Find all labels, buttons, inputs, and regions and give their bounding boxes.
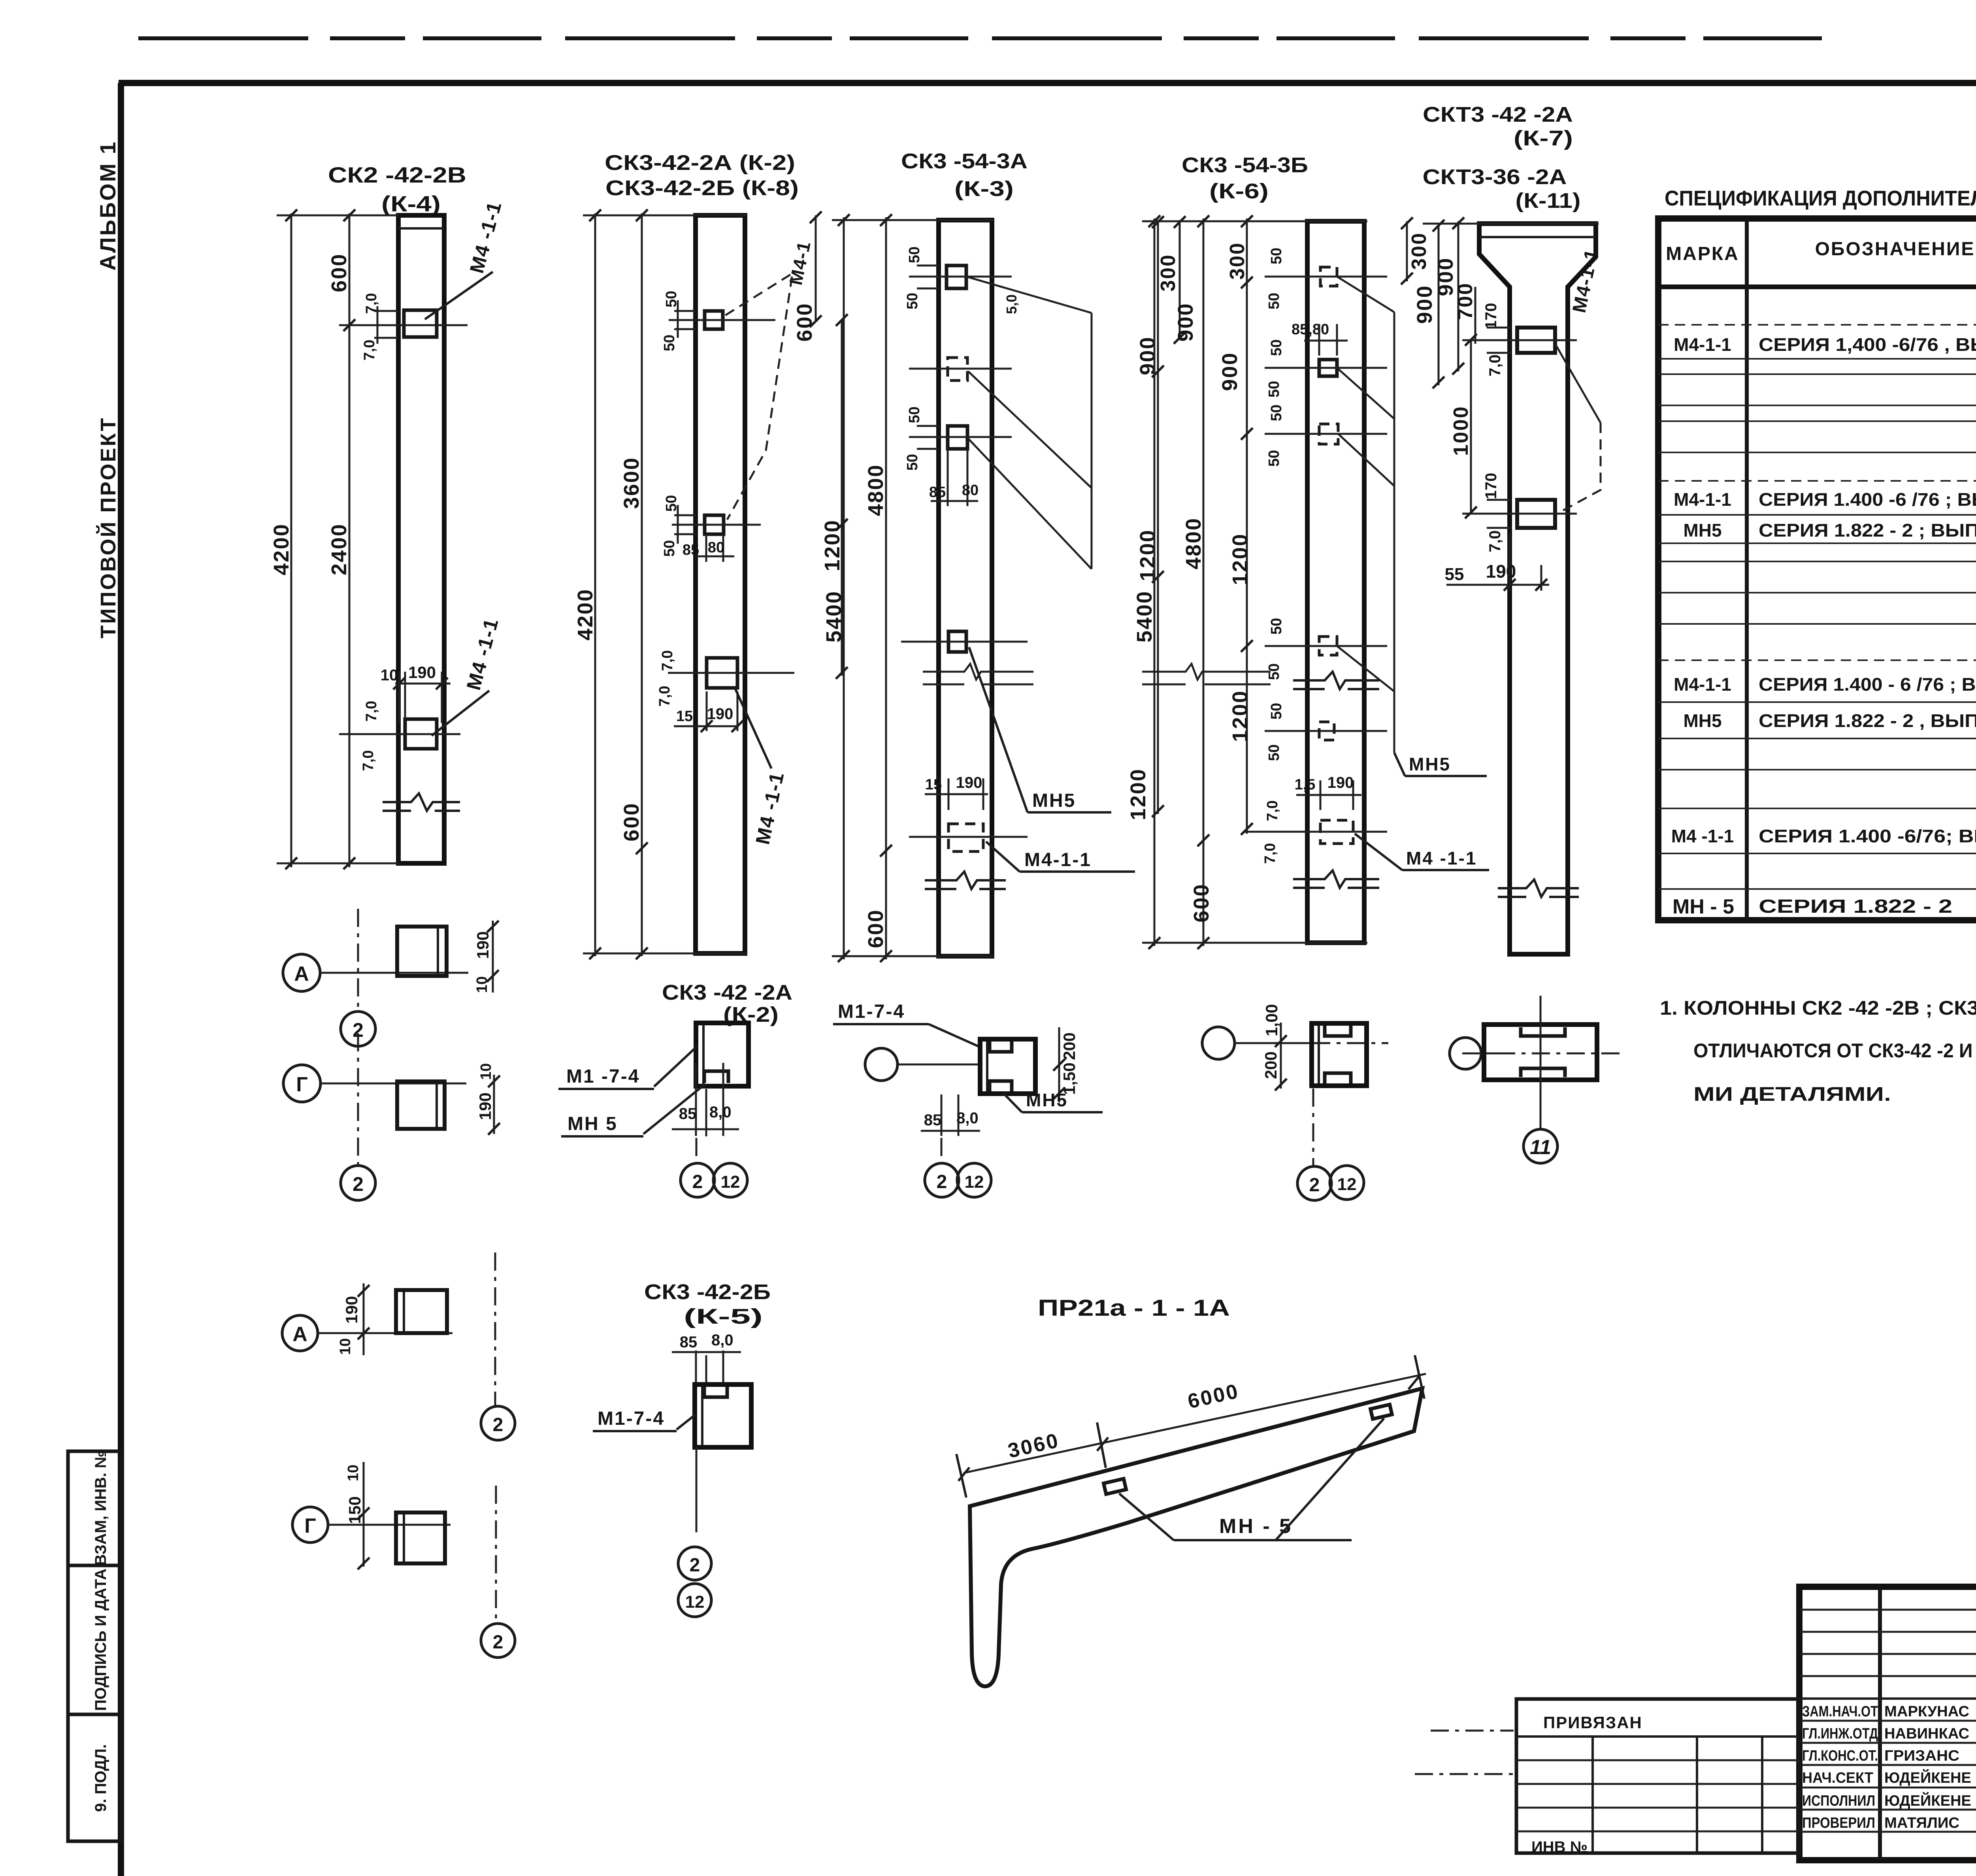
svg-text:600: 600 xyxy=(620,802,643,841)
row3 axis line Г xyxy=(328,1524,451,1526)
svg-text:50: 50 xyxy=(663,291,680,307)
small dims 70 70 at upper plate xyxy=(374,306,398,344)
svg-text:МАРКА: МАРКА xyxy=(1666,243,1739,264)
svg-text:М1-7-4: М1-7-4 xyxy=(838,1001,905,1022)
svg-text:ИНВ №: ИНВ № xyxy=(1531,1838,1588,1856)
sheet top dashed trim line xyxy=(138,38,1976,40)
plate 1 col3 xyxy=(947,266,966,288)
svg-text:ГЛ.ИНЖ.ОТД: ГЛ.ИНЖ.ОТД xyxy=(1802,1725,1878,1742)
svg-text:МИ ДЕТАЛЯМИ.: МИ ДЕТАЛЯМИ. xyxy=(1693,1083,1891,1105)
plate 6 col4 dashed М4-1-1 xyxy=(1320,820,1353,844)
section К-5 top plate xyxy=(704,1387,727,1397)
svg-text:85: 85 xyxy=(679,1105,697,1123)
plate 4 col4 dashed xyxy=(1319,637,1337,655)
left margin stamp box ПОДПИСЬ И ДАТА xyxy=(68,1565,121,1714)
svg-text:А: А xyxy=(294,962,309,985)
row2 third axis line xyxy=(1235,1042,1312,1044)
svg-text:ГЛ.КОНС.ОТ.: ГЛ.КОНС.ОТ. xyxy=(1802,1748,1878,1764)
dim line 3600 600 col2 xyxy=(641,213,643,956)
section К-11 axis bubble xyxy=(1450,1038,1481,1069)
section axis bubble А row2 xyxy=(283,954,320,991)
svg-text:80: 80 xyxy=(962,482,979,499)
table frame xyxy=(1658,218,1976,920)
plate 2 col4 xyxy=(1319,360,1337,376)
horizontal break dim lines col3 xyxy=(923,664,1271,684)
svg-text:МАТЯЛИС: МАТЯЛИС xyxy=(1884,1815,1959,1831)
svg-text:7,0: 7,0 xyxy=(361,340,378,361)
top extension line xyxy=(277,215,399,217)
svg-text:СК3 -54-3А: СК3 -54-3А xyxy=(901,149,1028,173)
dims 85 80 section К-2 xyxy=(672,1063,739,1136)
svg-text:10: 10 xyxy=(474,976,490,993)
svg-text:190: 190 xyxy=(476,1092,494,1120)
svg-text:7,0: 7,0 xyxy=(1486,354,1504,377)
svg-text:СКТ3 -42 -2А: СКТ3 -42 -2А xyxy=(1423,103,1573,126)
svg-text:СЕРИЯ 1.822 - 2 , ВЫП.6: СЕРИЯ 1.822 - 2 , ВЫП.6 xyxy=(1759,710,1976,731)
svg-text:12: 12 xyxy=(965,1172,984,1192)
plate axis line xyxy=(339,324,468,326)
row3 section А square xyxy=(396,1290,447,1333)
svg-text:900: 900 xyxy=(1218,352,1242,391)
column СК3-54-3Б body xyxy=(1307,221,1364,943)
svg-text:190: 190 xyxy=(408,663,436,682)
svg-text:МН5: МН5 xyxy=(1683,710,1721,731)
row2 third plates xyxy=(1325,1026,1351,1083)
row2 middle dims 200 150 xyxy=(1058,1027,1060,1102)
plate 2 col3 dashed xyxy=(948,358,967,380)
svg-text:МН 5: МН 5 xyxy=(568,1113,618,1134)
svg-text:СЕРИЯ 1.400 -6 /76 ; ВЫП. 1: СЕРИЯ 1.400 -6 /76 ; ВЫП. 1 xyxy=(1759,489,1976,510)
plate 2 col5 xyxy=(1517,500,1555,528)
svg-text:ПР21а - 1 - 1А: ПР21а - 1 - 1А xyxy=(1038,1295,1230,1321)
svg-text:МН - 5: МН - 5 xyxy=(1672,895,1734,918)
svg-text:ПОДПИСЬ И ДАТА: ПОДПИСЬ И ДАТА xyxy=(92,1569,109,1711)
svg-text:50: 50 xyxy=(661,540,678,557)
axis line Г xyxy=(321,1083,466,1085)
svg-text:900: 900 xyxy=(1136,336,1160,375)
svg-text:200: 200 xyxy=(1261,1051,1280,1079)
dim line 4800 600 col3 xyxy=(885,217,887,959)
plate 1 col2 xyxy=(705,311,723,329)
svg-text:(К-7): (К-7) xyxy=(1514,126,1573,150)
svg-text:М4 -1-1: М4 -1-1 xyxy=(751,770,788,846)
svg-text:80: 80 xyxy=(708,539,724,556)
frame top border xyxy=(119,80,1976,86)
svg-text:2: 2 xyxy=(1309,1175,1320,1196)
row2 third dims 100 200 xyxy=(1280,1023,1282,1089)
svg-text:ЗАМ.НАЧ.ОТ: ЗАМ.НАЧ.ОТ xyxy=(1802,1703,1878,1720)
section К-5 axis line below xyxy=(696,1447,698,1532)
svg-text:4200: 4200 xyxy=(270,523,293,575)
title block left rows xyxy=(1799,1609,1976,1611)
svg-text:2: 2 xyxy=(353,1173,364,1195)
svg-text:МН5: МН5 xyxy=(1026,1090,1068,1110)
embedded plate М4-1-1 upper xyxy=(404,310,437,337)
bottom extension col3 xyxy=(832,955,994,957)
svg-text:(К-11): (К-11) xyxy=(1516,189,1581,213)
left dim 900 col5 xyxy=(1438,224,1440,385)
svg-text:10: 10 xyxy=(478,1063,494,1080)
bottom extension col2 xyxy=(583,953,747,955)
svg-text:7,0: 7,0 xyxy=(656,686,673,707)
svg-text:ЮДЕЙКЕНЕ: ЮДЕЙКЕНЕ xyxy=(1884,1791,1971,1809)
svg-text:ТИПОВОЙ ПРОЕКТ: ТИПОВОЙ ПРОЕКТ xyxy=(96,416,120,639)
svg-text:М4 -1-1: М4 -1-1 xyxy=(466,199,506,275)
lower plate axis line xyxy=(339,733,460,735)
svg-text:Г: Г xyxy=(296,1073,307,1096)
right dim 900 col3 xyxy=(1157,220,1159,373)
svg-text:М4-1: М4-1 xyxy=(785,239,815,287)
svg-text:МН5: МН5 xyxy=(1032,790,1076,811)
svg-text:50: 50 xyxy=(906,407,923,423)
row2 middle axis line xyxy=(897,1064,980,1066)
dim line 5400 col3 xyxy=(843,217,845,959)
svg-text:ОТЛИЧАЮТСЯ ОТ СК3-42 -2 И: ОТЛИЧАЮТСЯ ОТ СК3-42 -2 И СК3-54- 2 ДОПО… xyxy=(1693,1040,1976,1062)
frame left border xyxy=(118,83,124,1876)
row2 middle section square xyxy=(980,1039,1035,1094)
svg-text:М4 -1-1: М4 -1-1 xyxy=(1671,826,1734,846)
row3 Г bubble 2 xyxy=(481,1624,515,1658)
svg-text:50: 50 xyxy=(1266,381,1282,397)
svg-text:1200: 1200 xyxy=(1136,529,1160,581)
bubbles 2 12 section К-2 xyxy=(681,1163,715,1197)
svg-text:СК3 -42 -2А: СК3 -42 -2А xyxy=(662,981,792,1004)
svg-text:СКТ3-36 -2А: СКТ3-36 -2А xyxy=(1423,165,1567,189)
svg-text:190: 190 xyxy=(707,705,733,723)
svg-text:М1 -7-4: М1 -7-4 xyxy=(566,1066,640,1087)
row3 А dims 190 10 xyxy=(363,1283,365,1355)
svg-text:600: 600 xyxy=(793,302,816,341)
svg-text:2: 2 xyxy=(937,1172,947,1192)
svg-text:9. ПОДЛ.: 9. ПОДЛ. xyxy=(92,1744,109,1812)
svg-text:55: 55 xyxy=(1445,565,1464,584)
axis bubble 11 xyxy=(1523,1129,1557,1163)
row2 third axis dash xyxy=(1312,1089,1314,1166)
bubbles 2 12 row2 third xyxy=(1297,1166,1331,1200)
column СК3-42-2А body xyxy=(696,215,745,953)
svg-text:СЕРИЯ 1.400 -6/76; ВЫП.1: СЕРИЯ 1.400 -6/76; ВЫП.1 xyxy=(1759,826,1976,846)
right dim 1200 col3 xyxy=(1157,373,1159,814)
svg-text:А: А xyxy=(292,1323,307,1346)
bubbles 2 12 row2 middle xyxy=(925,1163,959,1197)
svg-text:190: 190 xyxy=(956,774,982,791)
svg-text:М1-7-4: М1-7-4 xyxy=(598,1408,665,1429)
grid dash line 2 xyxy=(357,909,359,1011)
svg-text:50: 50 xyxy=(904,293,921,309)
row2 middle plates xyxy=(990,1042,1012,1091)
svg-text:10: 10 xyxy=(337,1338,354,1355)
svg-text:(К-6): (К-6) xyxy=(1209,179,1269,203)
svg-text:50: 50 xyxy=(1268,339,1285,356)
bottom extension line xyxy=(277,863,399,865)
svg-text:1200: 1200 xyxy=(1126,768,1150,820)
svg-text:СК3 -54-3Б: СК3 -54-3Б xyxy=(1182,153,1308,177)
svg-text:300: 300 xyxy=(1226,242,1249,280)
row2 third section square xyxy=(1312,1023,1367,1086)
small dims 50 50 col3 plate1 xyxy=(917,266,939,288)
привязан box xyxy=(1516,1699,1799,1853)
svg-text:2: 2 xyxy=(493,1632,503,1653)
svg-text:50: 50 xyxy=(1268,618,1285,635)
dim chain 300 900 1200 1200 col4 xyxy=(1246,218,1248,834)
svg-text:300: 300 xyxy=(1408,232,1431,270)
section К-11 axis vertical xyxy=(1540,996,1542,1129)
svg-text:5,0: 5,0 xyxy=(1003,294,1020,314)
svg-text:ГРИЗАНС: ГРИЗАНС xyxy=(1884,1748,1959,1764)
svg-text:15: 15 xyxy=(676,708,693,725)
svg-text:НАВИНКАС: НАВИНКАС xyxy=(1884,1725,1969,1742)
plate 1 col4 dashed xyxy=(1320,267,1337,286)
svg-text:М4-1-1: М4-1-1 xyxy=(1674,334,1731,355)
row3 А bubble 2 xyxy=(481,1406,515,1440)
row2 middle axis bubble xyxy=(865,1048,897,1081)
dim 1000 col5 xyxy=(1470,340,1472,514)
small dims 50 50 at plate2 col2 xyxy=(674,505,696,544)
row3 section Г square xyxy=(396,1512,445,1563)
svg-text:СЕРИЯ 1.822 - 2 ; ВЫП 6: СЕРИЯ 1.822 - 2 ; ВЫП 6 xyxy=(1759,520,1976,541)
svg-text:7,0: 7,0 xyxy=(1486,530,1504,552)
dim line 4800 600 col4 xyxy=(1203,218,1205,946)
svg-text:4200: 4200 xyxy=(573,588,597,640)
title block verticals xyxy=(1878,1587,1882,1860)
bubbles 2 12 section К-5 xyxy=(678,1547,711,1580)
dim line 4200 col2 xyxy=(594,213,596,956)
dim 15 190 col3 xyxy=(925,778,988,810)
dim line 4200 xyxy=(290,213,292,867)
svg-text:2400: 2400 xyxy=(327,523,351,575)
svg-text:85: 85 xyxy=(683,542,699,558)
small dims 50 50 col3 plate3 xyxy=(917,426,939,449)
svg-text:50: 50 xyxy=(1268,405,1285,421)
svg-text:300: 300 xyxy=(1157,254,1180,292)
svg-text:НАЧ.СЕКТ: НАЧ.СЕКТ xyxy=(1802,1770,1873,1786)
svg-text:7,0: 7,0 xyxy=(360,750,377,771)
svg-text:170: 170 xyxy=(1482,303,1500,330)
svg-text:10: 10 xyxy=(345,1465,362,1481)
row2 middle dims 85 80 xyxy=(921,1094,980,1136)
svg-text:85: 85 xyxy=(929,484,946,501)
dim 700 col5 xyxy=(1474,287,1476,344)
row3 Г axis dash xyxy=(495,1486,497,1623)
plate 4 col3 xyxy=(948,631,966,652)
svg-text:50: 50 xyxy=(663,495,680,512)
section А dims 190 10 xyxy=(492,921,494,993)
section А square xyxy=(397,927,447,976)
svg-text:7,0: 7,0 xyxy=(1264,801,1281,821)
top extension col2 xyxy=(583,215,747,217)
axis line А xyxy=(320,972,468,974)
table header bottom line xyxy=(1658,284,1976,289)
plate axis lines col5 xyxy=(1462,339,1577,341)
svg-text:МН5: МН5 xyxy=(1683,520,1721,541)
column СК3-54-3А break mark xyxy=(925,872,1006,889)
svg-text:1200: 1200 xyxy=(1228,533,1252,585)
svg-text:190: 190 xyxy=(1327,774,1354,791)
svg-text:600: 600 xyxy=(864,909,888,948)
leader lines plates col4 xyxy=(1337,277,1394,753)
small dims 50 50 at plate1 col2 xyxy=(674,300,696,338)
svg-text:ПРОВЕРИЛ: ПРОВЕРИЛ xyxy=(1802,1815,1875,1831)
svg-text:85: 85 xyxy=(680,1334,698,1351)
svg-text:М4 -1-1: М4 -1-1 xyxy=(462,616,503,692)
svg-text:600: 600 xyxy=(327,253,351,292)
svg-text:1,5: 1,5 xyxy=(1295,776,1316,793)
dim 10 190 above lower plate xyxy=(395,672,451,723)
svg-text:7,0: 7,0 xyxy=(1262,843,1278,864)
left margin stamp box ИНВ № ПОДЛ xyxy=(68,1714,121,1841)
section К-11 body xyxy=(1484,1025,1597,1080)
svg-text:50: 50 xyxy=(1266,450,1282,467)
axis bubble 2 xyxy=(341,1011,375,1046)
svg-text:50: 50 xyxy=(904,454,921,471)
svg-text:15: 15 xyxy=(925,776,942,793)
svg-text:СЕРИЯ 1,400 -6/76 , ВЫП. 1: СЕРИЯ 1,400 -6/76 , ВЫП. 1 xyxy=(1759,334,1976,355)
svg-text:5400: 5400 xyxy=(822,590,846,642)
svg-text:ВЗАМ, ИНВ. №: ВЗАМ, ИНВ. № xyxy=(92,1450,109,1565)
top extension col4 xyxy=(1142,220,1367,222)
dim line 600 / 2400 xyxy=(349,213,351,867)
beam plate МН-5 mid xyxy=(1104,1479,1126,1494)
svg-text:200: 200 xyxy=(1060,1032,1079,1060)
svg-text:АЛЬБОМ 1: АЛЬБОМ 1 xyxy=(95,140,120,271)
svg-text:2: 2 xyxy=(690,1555,700,1576)
svg-text:СК3-42-2Б (К-8): СК3-42-2Б (К-8) xyxy=(605,176,799,200)
beam dim 3060 xyxy=(963,1443,1103,1473)
section К-11 center line xyxy=(1462,1053,1620,1055)
dim 15 190 above plate3 col2 xyxy=(674,691,737,731)
svg-text:900: 900 xyxy=(1413,284,1437,324)
svg-text:8,0: 8,0 xyxy=(709,1104,732,1121)
beam dim 6000 xyxy=(1103,1374,1426,1443)
svg-text:СК2 -42-2В: СК2 -42-2В xyxy=(328,162,466,187)
plate 5 col4 dashed xyxy=(1319,722,1334,740)
axis dash line section К-2 xyxy=(696,1138,698,1164)
svg-text:Г: Г xyxy=(304,1514,316,1537)
svg-text:2: 2 xyxy=(493,1415,503,1435)
svg-text:4800: 4800 xyxy=(864,464,888,516)
svg-text:150: 150 xyxy=(345,1496,364,1524)
section axis bubble Г row2 xyxy=(283,1065,321,1102)
row3 axis line А xyxy=(318,1332,453,1334)
row3 А axis dash xyxy=(494,1253,496,1406)
svg-text:900: 900 xyxy=(1174,302,1197,341)
svg-text:11: 11 xyxy=(1530,1136,1551,1159)
svg-text:СЕРИЯ 1.822 - 2: СЕРИЯ 1.822 - 2 xyxy=(1759,896,1952,917)
beam plate МН-5 right xyxy=(1371,1405,1392,1419)
row3 Г dims 10 150 xyxy=(363,1462,365,1567)
dim 55 190 col5 xyxy=(1446,533,1549,591)
section К-11 axis line xyxy=(1481,1053,1498,1055)
plate 5 col3 dashed М4-1-1 xyxy=(948,824,983,851)
svg-text:ПРИВЯЗАН: ПРИВЯЗАН xyxy=(1543,1713,1642,1732)
svg-text:85,80: 85,80 xyxy=(1292,321,1329,338)
svg-text:2: 2 xyxy=(692,1172,703,1192)
svg-text:М4-1-1: М4-1-1 xyxy=(1674,489,1731,510)
svg-text:1. КОЛОННЫ СК2 -42 -2В ; СК3: 1. КОЛОННЫ СК2 -42 -2В ; СК3-42 -2А; СК3… xyxy=(1660,997,1976,1019)
row3 axis bubble Г xyxy=(292,1507,328,1543)
dim 85 80 col3 xyxy=(931,449,978,506)
svg-text:50: 50 xyxy=(1268,703,1285,720)
svg-text:СЕРИЯ 1.400 - 6 /76 ; ВЫП. 1: СЕРИЯ 1.400 - 6 /76 ; ВЫП. 1 xyxy=(1759,674,1976,695)
svg-text:12: 12 xyxy=(1337,1175,1357,1194)
plate axis lines col3 xyxy=(909,276,1012,278)
svg-text:12: 12 xyxy=(721,1172,740,1192)
svg-text:М4-1-1: М4-1-1 xyxy=(1674,674,1731,695)
svg-text:М4 -1-1: М4 -1-1 xyxy=(1406,848,1477,868)
section К-2 bottom plate xyxy=(704,1071,728,1083)
svg-text:5400: 5400 xyxy=(1133,590,1156,642)
plate 2 col2 xyxy=(705,515,724,534)
svg-text:190: 190 xyxy=(1486,561,1516,582)
svg-text:50: 50 xyxy=(661,335,678,351)
dim 15 190 col4 xyxy=(1296,780,1361,810)
section К-2 square xyxy=(696,1023,749,1086)
beam outline xyxy=(970,1388,1422,1686)
svg-text:ИСПОЛНИЛ: ИСПОЛНИЛ xyxy=(1802,1793,1875,1809)
row3 axis bubble А xyxy=(282,1315,318,1351)
grid dash line 2 lower xyxy=(357,1033,359,1165)
svg-text:170: 170 xyxy=(1482,473,1500,499)
svg-text:(К-3): (К-3) xyxy=(954,177,1014,201)
row2 third axis bubble xyxy=(1202,1027,1235,1059)
break marks col4 xyxy=(1293,672,1379,689)
svg-text:190: 190 xyxy=(473,931,492,959)
right dim 1200 col2 xyxy=(841,320,843,676)
svg-text:(К-4): (К-4) xyxy=(381,191,441,216)
svg-text:(К-5): (К-5) xyxy=(684,1305,763,1328)
svg-text:50: 50 xyxy=(1268,248,1285,264)
svg-text:50: 50 xyxy=(1266,744,1282,761)
svg-text:ОБОЗНАЧЕНИЕ: ОБОЗНАЧЕНИЕ xyxy=(1815,239,1975,260)
svg-text:3600: 3600 xyxy=(620,457,643,509)
svg-text:7,0: 7,0 xyxy=(659,650,676,671)
right dim 300 col3 xyxy=(1179,220,1181,340)
svg-text:50: 50 xyxy=(1266,293,1282,309)
section Г square xyxy=(397,1081,445,1129)
right dim 900 col4 xyxy=(1457,221,1459,371)
svg-text:10: 10 xyxy=(381,667,398,684)
svg-text:8,0: 8,0 xyxy=(711,1332,733,1349)
привязан dash extensions xyxy=(1415,1731,1514,1774)
title block frame xyxy=(1799,1587,1976,1860)
section К-11 plates xyxy=(1521,1027,1565,1077)
svg-text:МАРКУНАС: МАРКУНАС xyxy=(1884,1703,1969,1720)
section Г dims 10 190 xyxy=(493,1075,495,1134)
top extension col3 xyxy=(832,219,994,221)
left margin stamp box ВЗАМ ИНВ № xyxy=(68,1451,121,1565)
svg-text:СК3-42-2А (К-2): СК3-42-2А (К-2) xyxy=(605,151,795,175)
plate axis lines col2 xyxy=(669,319,775,321)
svg-text:СПЕЦИФИКАЦИЯ ДОПОЛНИТЕЛЬНЫХ ЗА: СПЕЦИФИКАЦИЯ ДОПОЛНИТЕЛЬНЫХ ЗАКЛАДНЫХ ДЕ… xyxy=(1665,186,1976,210)
svg-text:50: 50 xyxy=(906,247,923,263)
plate 1 col5 xyxy=(1517,328,1555,353)
table row lines xyxy=(1658,324,1976,326)
column СК2-42-2В body xyxy=(398,215,444,863)
svg-text:190: 190 xyxy=(342,1296,361,1324)
bottom extension col4 xyxy=(1142,942,1367,944)
svg-text:50: 50 xyxy=(1266,663,1282,680)
top extension col5 xyxy=(1423,223,1599,225)
svg-text:СК3 -42-2Б: СК3 -42-2Б xyxy=(644,1280,771,1304)
column СК2-42-2В break mark xyxy=(383,793,460,811)
svg-text:8,0: 8,0 xyxy=(956,1109,979,1127)
dim 85 80 below plate2 col2 xyxy=(695,534,734,562)
svg-text:1200: 1200 xyxy=(820,519,844,571)
svg-text:4800: 4800 xyxy=(1182,517,1205,569)
svg-text:6000: 6000 xyxy=(1186,1380,1241,1413)
svg-text:7,0: 7,0 xyxy=(363,293,380,314)
svg-text:1200: 1200 xyxy=(1228,690,1252,742)
